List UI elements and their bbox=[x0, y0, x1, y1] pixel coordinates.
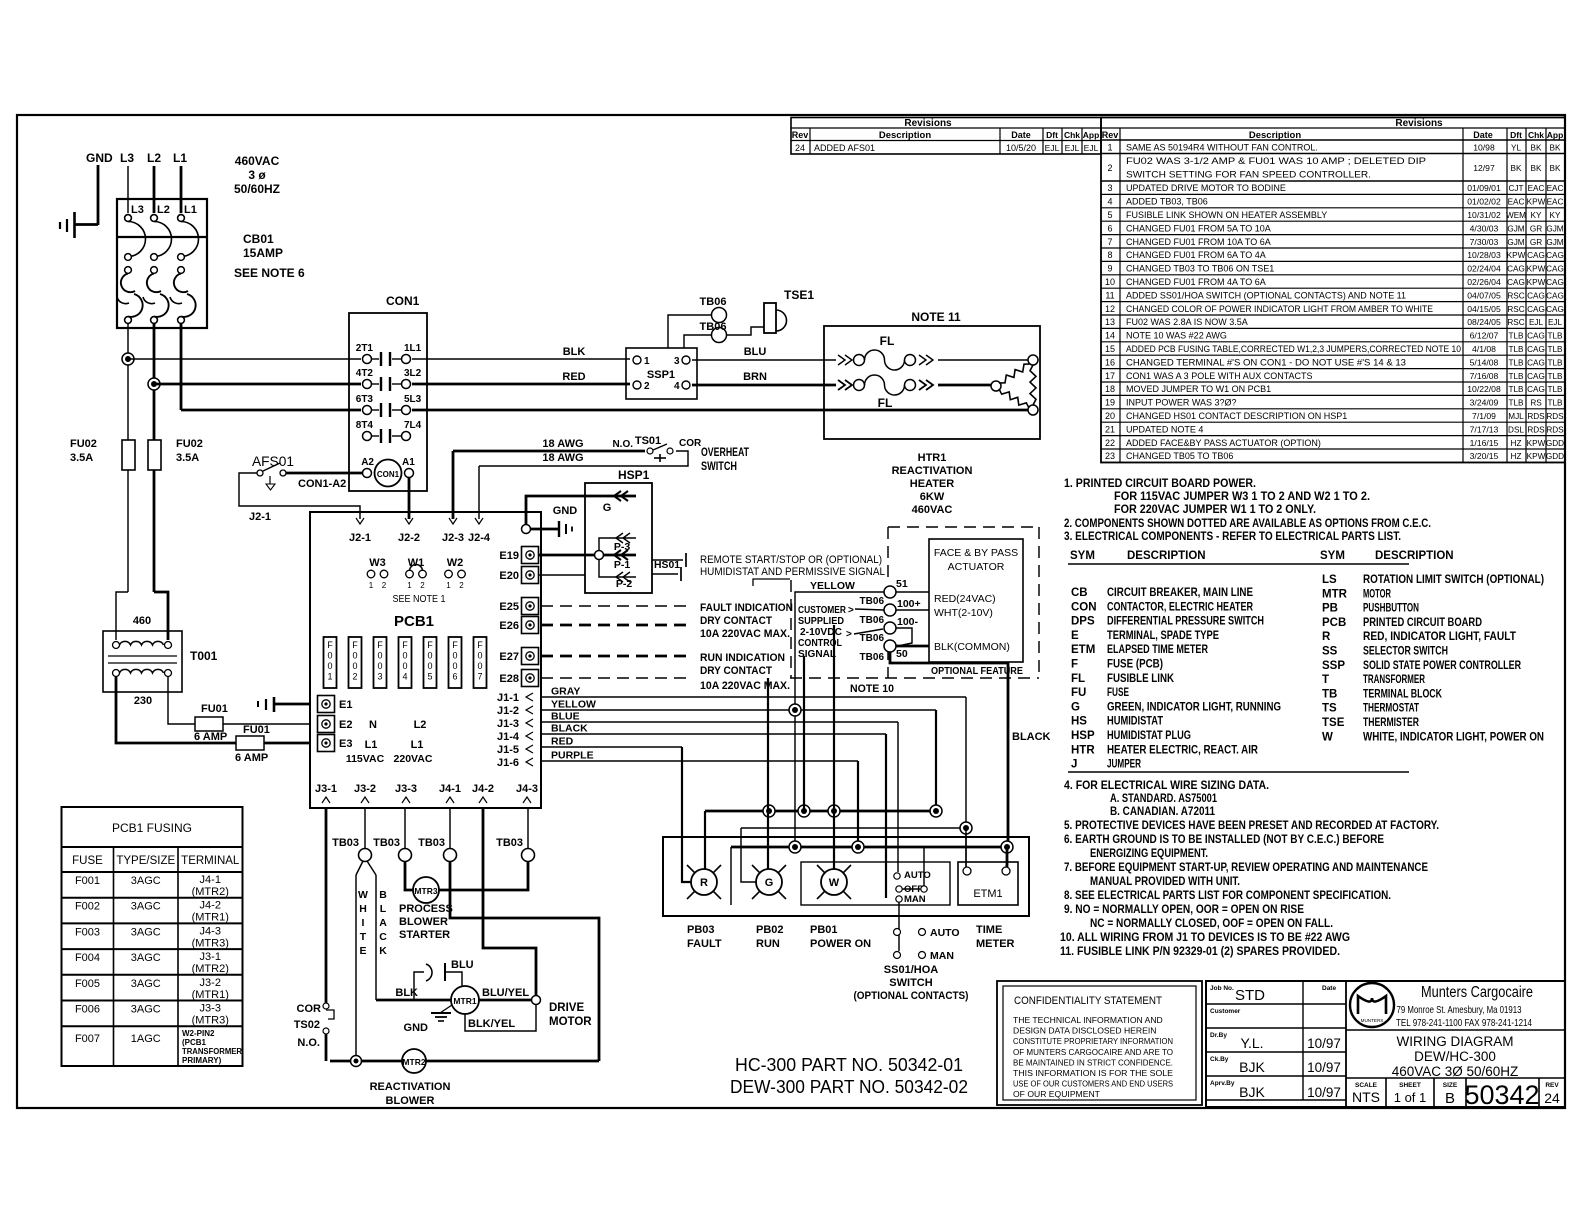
svg-text:K: K bbox=[379, 945, 387, 957]
svg-text:CHANGED TB03 TO TB06 ON TSE1: CHANGED TB03 TO TB06 ON TSE1 bbox=[1126, 264, 1274, 274]
svg-text:RS: RS bbox=[1530, 399, 1542, 408]
svg-text:J3-1: J3-1 bbox=[315, 783, 337, 795]
svg-text:KPW: KPW bbox=[1527, 439, 1546, 448]
svg-text:REV: REV bbox=[1545, 1082, 1559, 1089]
svg-text:6: 6 bbox=[452, 672, 457, 682]
svg-text:DSL: DSL bbox=[1508, 425, 1524, 434]
svg-text:1 of 1: 1 of 1 bbox=[1394, 1090, 1427, 1105]
svg-text:BLU: BLU bbox=[744, 346, 767, 358]
svg-text:Dft: Dft bbox=[1046, 130, 1058, 140]
svg-text:22: 22 bbox=[1105, 438, 1115, 448]
svg-text:220VAC: 220VAC bbox=[394, 753, 433, 765]
svg-text:10A 220VAC MAX.: 10A 220VAC MAX. bbox=[700, 628, 790, 640]
svg-text:STARTER: STARTER bbox=[399, 929, 450, 941]
svg-text:4T2: 4T2 bbox=[356, 368, 374, 379]
svg-text:CAG: CAG bbox=[1507, 278, 1525, 287]
svg-text:BJK: BJK bbox=[1239, 1059, 1265, 1075]
svg-text:02/26/04: 02/26/04 bbox=[1467, 277, 1501, 287]
svg-text:EJL: EJL bbox=[1045, 143, 1060, 153]
svg-text:TLB: TLB bbox=[1508, 332, 1524, 341]
svg-text:GREEN, INDICATOR LIGHT, RUNNIN: GREEN, INDICATOR LIGHT, RUNNING bbox=[1107, 701, 1281, 713]
svg-text:(MTR2): (MTR2) bbox=[192, 886, 229, 898]
svg-text:3L2: 3L2 bbox=[404, 368, 422, 379]
svg-text:0: 0 bbox=[402, 661, 407, 671]
svg-text:COR: COR bbox=[679, 438, 702, 449]
svg-text:3AGC: 3AGC bbox=[131, 926, 161, 938]
svg-text:KPW: KPW bbox=[1507, 251, 1526, 260]
svg-text:J1-5: J1-5 bbox=[497, 744, 519, 756]
svg-text:FOR 115VAC JUMPER W3 1 TO 2 AN: FOR 115VAC JUMPER W3 1 TO 2 AND W2 1 TO … bbox=[1114, 489, 1370, 503]
svg-text:TLB: TLB bbox=[1508, 372, 1524, 381]
svg-text:CJT: CJT bbox=[1508, 184, 1523, 193]
svg-text:10A 220VAC MAX.: 10A 220VAC MAX. bbox=[700, 680, 790, 692]
svg-text:50/60HZ: 50/60HZ bbox=[234, 182, 280, 196]
svg-text:BLK: BLK bbox=[563, 346, 586, 358]
svg-text:R: R bbox=[1322, 631, 1331, 643]
svg-text:F006: F006 bbox=[75, 1004, 100, 1016]
svg-text:FOR 220VAC JUMPER W1 1 TO 2 ON: FOR 220VAC JUMPER W1 1 TO 2 ONLY. bbox=[1114, 502, 1316, 516]
svg-text:0: 0 bbox=[352, 661, 357, 671]
svg-text:BLK/YEL: BLK/YEL bbox=[468, 1018, 515, 1030]
svg-text:CHANGED COLOR OF POWER INDICAT: CHANGED COLOR OF POWER INDICATOR LIGHT F… bbox=[1126, 304, 1433, 314]
svg-text:HZ: HZ bbox=[1511, 439, 1522, 448]
svg-text:W2: W2 bbox=[447, 557, 464, 569]
svg-text:A2: A2 bbox=[361, 457, 374, 468]
svg-text:UPDATED NOTE 4: UPDATED NOTE 4 bbox=[1126, 424, 1203, 434]
svg-text:TLB: TLB bbox=[1547, 358, 1563, 367]
svg-text:10/98: 10/98 bbox=[1473, 143, 1495, 153]
svg-text:RDS: RDS bbox=[1527, 412, 1545, 421]
svg-text:3: 3 bbox=[1107, 183, 1112, 193]
svg-text:Customer: Customer bbox=[1210, 1008, 1241, 1015]
svg-text:W: W bbox=[1322, 731, 1333, 743]
svg-text:L1: L1 bbox=[173, 151, 187, 165]
svg-text:7/1/09: 7/1/09 bbox=[1472, 411, 1496, 421]
svg-text:RSC: RSC bbox=[1507, 291, 1524, 300]
svg-text:0: 0 bbox=[477, 661, 482, 671]
svg-text:(MTR3): (MTR3) bbox=[192, 1015, 229, 1027]
svg-text:CAG: CAG bbox=[1546, 305, 1564, 314]
svg-text:TB06: TB06 bbox=[860, 652, 885, 663]
svg-text:E: E bbox=[1071, 630, 1079, 642]
svg-text:3.5A: 3.5A bbox=[70, 452, 93, 464]
svg-text:2. COMPONENTS SHOWN DOTTED ARE: 2. COMPONENTS SHOWN DOTTED ARE AVAILABLE… bbox=[1064, 516, 1431, 530]
svg-text:0: 0 bbox=[327, 651, 332, 661]
svg-text:SWITCH SETTING FOR FAN SPEED C: SWITCH SETTING FOR FAN SPEED CONTROLLER. bbox=[1126, 170, 1371, 180]
svg-text:6T3: 6T3 bbox=[356, 394, 374, 405]
svg-text:STD: STD bbox=[1235, 987, 1265, 1004]
svg-text:P-1: P-1 bbox=[614, 559, 631, 571]
svg-text:FUSIBLE LINK SHOWN ON HEATER A: FUSIBLE LINK SHOWN ON HEATER ASSEMBLY bbox=[1126, 210, 1327, 220]
svg-text:CAG: CAG bbox=[1546, 251, 1564, 260]
svg-text:WEM: WEM bbox=[1506, 211, 1526, 220]
svg-text:THERMOSTAT: THERMOSTAT bbox=[1363, 703, 1419, 715]
svg-text:J3-3: J3-3 bbox=[395, 783, 417, 795]
svg-text:GND: GND bbox=[86, 151, 113, 165]
svg-text:CAG: CAG bbox=[1507, 265, 1525, 274]
svg-text:A. STANDARD. AS75001: A. STANDARD. AS75001 bbox=[1110, 791, 1217, 805]
svg-text:GR: GR bbox=[1530, 238, 1542, 247]
svg-text:SHEET: SHEET bbox=[1399, 1082, 1421, 1089]
svg-text:SWITCH: SWITCH bbox=[889, 977, 932, 989]
svg-text:KY: KY bbox=[1550, 211, 1561, 220]
svg-text:MOTOR: MOTOR bbox=[549, 1016, 592, 1028]
svg-text:HSP1: HSP1 bbox=[618, 468, 650, 482]
svg-text:FUSE: FUSE bbox=[72, 855, 103, 867]
svg-text:>: > bbox=[848, 605, 854, 616]
svg-text:A: A bbox=[379, 917, 387, 929]
svg-text:J4-1: J4-1 bbox=[200, 874, 221, 886]
svg-text:TLB: TLB bbox=[1547, 399, 1563, 408]
svg-text:SYM: SYM bbox=[1320, 550, 1345, 562]
svg-text:F004: F004 bbox=[75, 952, 100, 964]
svg-text:7/16/08: 7/16/08 bbox=[1470, 371, 1499, 381]
svg-text:Revisions: Revisions bbox=[904, 118, 952, 129]
svg-text:DEW-300 PART NO. 50342-02: DEW-300 PART NO. 50342-02 bbox=[730, 1077, 968, 1097]
svg-text:0: 0 bbox=[377, 661, 382, 671]
svg-text:ACTUATOR: ACTUATOR bbox=[948, 561, 1005, 573]
svg-text:79 Monroe St. Amesbury, Ma 019: 79 Monroe St. Amesbury, Ma 01913 bbox=[1397, 1004, 1522, 1016]
svg-text:18: 18 bbox=[1105, 384, 1115, 394]
svg-text:2: 2 bbox=[644, 381, 650, 392]
svg-text:CHANGED FU01 FROM 4A TO 6A: CHANGED FU01 FROM 4A TO 6A bbox=[1126, 277, 1266, 287]
svg-text:DEW/HC-300: DEW/HC-300 bbox=[1414, 1049, 1496, 1064]
svg-text:NOTE 10 WAS #22 AWG: NOTE 10 WAS #22 AWG bbox=[1126, 331, 1227, 341]
svg-text:CAG: CAG bbox=[1546, 291, 1564, 300]
svg-text:TLB: TLB bbox=[1508, 358, 1524, 367]
svg-text:TRANSFORMER: TRANSFORMER bbox=[182, 1047, 242, 1056]
svg-text:10: 10 bbox=[1105, 277, 1115, 287]
svg-text:KPW: KPW bbox=[1527, 452, 1546, 461]
svg-text:3AGC: 3AGC bbox=[131, 952, 161, 964]
svg-text:TB: TB bbox=[1322, 688, 1337, 700]
svg-text:5L3: 5L3 bbox=[404, 394, 422, 405]
svg-text:B. CANADIAN. A72011: B. CANADIAN. A72011 bbox=[1110, 804, 1215, 818]
svg-text:NC = NORMALLY CLOSED, OOF = OP: NC = NORMALLY CLOSED, OOF = OPEN ON FALL… bbox=[1090, 916, 1333, 930]
svg-text:CON1 WAS A 3 POLE WITH AUX CON: CON1 WAS A 3 POLE WITH AUX CONTACTS bbox=[1126, 371, 1313, 381]
svg-text:T: T bbox=[360, 931, 367, 943]
svg-text:CHANGED TERMINAL #'S ON CON1 -: CHANGED TERMINAL #'S ON CON1 - DO NOT US… bbox=[1126, 357, 1406, 367]
svg-text:MOTOR: MOTOR bbox=[1363, 588, 1391, 600]
svg-text:J2-3: J2-3 bbox=[442, 532, 464, 544]
svg-text:TLB: TLB bbox=[1547, 332, 1563, 341]
svg-text:METER: METER bbox=[976, 938, 1015, 950]
svg-text:POWER ON: POWER ON bbox=[810, 938, 871, 950]
svg-text:COR: COR bbox=[297, 1003, 322, 1015]
svg-text:ELAPSED TIME METER: ELAPSED TIME METER bbox=[1107, 644, 1209, 656]
svg-text:MAN: MAN bbox=[930, 950, 954, 962]
svg-text:PCB1 FUSING: PCB1 FUSING bbox=[112, 821, 192, 835]
svg-text:EJL: EJL bbox=[1084, 143, 1099, 153]
svg-text:RED: RED bbox=[562, 371, 585, 383]
svg-text:PUSHBUTTON: PUSHBUTTON bbox=[1363, 603, 1419, 615]
svg-text:4/30/03: 4/30/03 bbox=[1470, 223, 1499, 233]
svg-text:4: 4 bbox=[674, 381, 680, 392]
svg-text:1. PRINTED CIRCUIT BOARD POWER: 1. PRINTED CIRCUIT BOARD POWER. bbox=[1064, 476, 1256, 490]
svg-text:460VAC: 460VAC bbox=[235, 154, 280, 168]
svg-text:F: F bbox=[402, 640, 408, 650]
svg-text:CONTROL: CONTROL bbox=[798, 638, 842, 649]
svg-text:W: W bbox=[358, 889, 368, 901]
svg-text:TSE: TSE bbox=[1322, 717, 1345, 729]
svg-text:SAME AS 50194R4 WITHOUT FAN CO: SAME AS 50194R4 WITHOUT FAN CONTROL. bbox=[1126, 143, 1318, 153]
svg-text:3AGC: 3AGC bbox=[131, 978, 161, 990]
svg-text:17: 17 bbox=[1105, 371, 1115, 381]
svg-text:L3: L3 bbox=[120, 151, 134, 165]
svg-text:RED: RED bbox=[551, 736, 574, 748]
svg-text:L1: L1 bbox=[365, 739, 378, 751]
svg-text:ADDED AFS01: ADDED AFS01 bbox=[814, 143, 875, 153]
svg-text:1L1: 1L1 bbox=[404, 343, 422, 354]
svg-text:Rev: Rev bbox=[1102, 130, 1119, 140]
svg-text:F005: F005 bbox=[75, 978, 100, 990]
svg-text:SSP: SSP bbox=[1322, 660, 1345, 672]
svg-text:PRINTED CIRCUIT BOARD: PRINTED CIRCUIT BOARD bbox=[1363, 617, 1482, 629]
svg-text:CAG: CAG bbox=[1527, 332, 1545, 341]
svg-text:3AGC: 3AGC bbox=[131, 1004, 161, 1016]
svg-text:L2: L2 bbox=[157, 204, 170, 216]
svg-text:CON: CON bbox=[1071, 601, 1097, 613]
svg-text:4/1/08: 4/1/08 bbox=[1472, 344, 1496, 354]
svg-text:0: 0 bbox=[327, 661, 332, 671]
svg-text:Revisions: Revisions bbox=[1395, 118, 1443, 129]
svg-text:RSC: RSC bbox=[1507, 318, 1524, 327]
svg-text:E2: E2 bbox=[339, 719, 352, 731]
svg-text:23: 23 bbox=[1105, 451, 1115, 461]
svg-text:0: 0 bbox=[452, 651, 457, 661]
svg-text:Chk: Chk bbox=[1064, 130, 1080, 140]
svg-text:15: 15 bbox=[1105, 344, 1115, 354]
svg-text:T001: T001 bbox=[190, 649, 218, 663]
svg-text:6/12/07: 6/12/07 bbox=[1470, 331, 1499, 341]
svg-text:SSP1: SSP1 bbox=[647, 369, 675, 381]
svg-text:Date: Date bbox=[1473, 130, 1493, 140]
svg-text:10/97: 10/97 bbox=[1307, 1036, 1341, 1051]
svg-text:OVERHEAT: OVERHEAT bbox=[701, 447, 749, 459]
svg-text:BLU/YEL: BLU/YEL bbox=[482, 987, 529, 999]
svg-text:DIFFERENTIAL PRESSURE SWITCH: DIFFERENTIAL PRESSURE SWITCH bbox=[1107, 616, 1264, 628]
svg-text:FACE & BY PASS: FACE & BY PASS bbox=[934, 547, 1018, 559]
svg-text:10/31/02: 10/31/02 bbox=[1467, 210, 1501, 220]
svg-text:DESCRIPTION: DESCRIPTION bbox=[1375, 550, 1454, 562]
svg-text:UPDATED DRIVE MOTOR TO BODINE: UPDATED DRIVE MOTOR TO BODINE bbox=[1126, 183, 1286, 193]
svg-text:BRN: BRN bbox=[743, 371, 767, 383]
svg-text:RDS: RDS bbox=[1546, 425, 1564, 434]
svg-text:FU01: FU01 bbox=[243, 724, 270, 736]
svg-text:E20: E20 bbox=[499, 570, 519, 582]
svg-text:DESIGN DATA DISCLOSED HEREIN: DESIGN DATA DISCLOSED HEREIN bbox=[1013, 1026, 1156, 1036]
svg-text:F007: F007 bbox=[75, 1033, 100, 1045]
svg-text:G: G bbox=[603, 502, 612, 514]
svg-text:18 AWG: 18 AWG bbox=[542, 452, 583, 464]
svg-text:CHANGED HS01 CONTACT DESCRIPTI: CHANGED HS01 CONTACT DESCRIPTION ON HSP1 bbox=[1126, 411, 1347, 421]
svg-text:THE TECHNICAL INFORMATION AND: THE TECHNICAL INFORMATION AND bbox=[1013, 1015, 1163, 1025]
svg-text:6 AMP: 6 AMP bbox=[235, 752, 268, 764]
svg-text:02/24/04: 02/24/04 bbox=[1467, 264, 1501, 274]
svg-text:FU02: FU02 bbox=[176, 438, 203, 450]
svg-text:GJM: GJM bbox=[1507, 224, 1524, 233]
svg-text:App: App bbox=[1547, 130, 1564, 140]
svg-text:PROCESS: PROCESS bbox=[399, 903, 453, 915]
svg-text:F: F bbox=[327, 640, 333, 650]
svg-text:MTR3: MTR3 bbox=[414, 886, 437, 896]
svg-text:FU02 WAS 2.8A IS NOW 3.5A: FU02 WAS 2.8A IS NOW 3.5A bbox=[1126, 317, 1248, 327]
svg-text:CIRCUIT BREAKER, MAIN LINE: CIRCUIT BREAKER, MAIN LINE bbox=[1107, 587, 1253, 599]
svg-text:BK: BK bbox=[1550, 164, 1561, 173]
svg-text:24: 24 bbox=[795, 143, 805, 153]
svg-text:7: 7 bbox=[1107, 237, 1112, 247]
svg-text:SOLID STATE POWER CONTROLLER: SOLID STATE POWER CONTROLLER bbox=[1363, 660, 1522, 672]
svg-text:J4-2: J4-2 bbox=[472, 783, 494, 795]
svg-text:REMOTE START/STOP OR (OPTIONAL: REMOTE START/STOP OR (OPTIONAL) bbox=[700, 554, 882, 566]
svg-text:8. SEE ELECTRICAL PARTS LIST: 8. SEE ELECTRICAL PARTS LIST FOR COMPONE… bbox=[1064, 888, 1391, 902]
svg-text:RED(24VAC): RED(24VAC) bbox=[934, 593, 996, 605]
svg-text:GJM: GJM bbox=[1546, 238, 1563, 247]
svg-text:08/24/05: 08/24/05 bbox=[1467, 317, 1501, 327]
svg-text:CHANGED FU01 FROM 5A TO 10A: CHANGED FU01 FROM 5A TO 10A bbox=[1126, 223, 1271, 233]
svg-text:CAG: CAG bbox=[1546, 265, 1564, 274]
svg-text:Dft: Dft bbox=[1510, 130, 1522, 140]
svg-text:YL: YL bbox=[1511, 144, 1521, 153]
svg-text:JUMPER: JUMPER bbox=[1107, 759, 1141, 771]
svg-text:MTR1: MTR1 bbox=[453, 996, 476, 1006]
svg-text:CONSTITUTE PROPRIETARY INFORMA: CONSTITUTE PROPRIETARY INFORMATION bbox=[1013, 1036, 1173, 1046]
svg-text:E3: E3 bbox=[339, 738, 352, 750]
svg-text:TB06: TB06 bbox=[860, 596, 885, 607]
svg-text:MAN: MAN bbox=[904, 894, 926, 905]
svg-text:FUSIBLE LINK: FUSIBLE LINK bbox=[1107, 673, 1175, 685]
svg-text:CHANGED FU01 FROM 6A TO 4A: CHANGED FU01 FROM 6A TO 4A bbox=[1126, 250, 1266, 260]
svg-text:GDD: GDD bbox=[1546, 452, 1564, 461]
svg-text:7: 7 bbox=[477, 672, 482, 682]
svg-text:FUSE: FUSE bbox=[1107, 687, 1129, 699]
svg-text:REACTIVATION: REACTIVATION bbox=[370, 1081, 451, 1093]
svg-text:460: 460 bbox=[133, 615, 151, 627]
svg-text:7/17/13: 7/17/13 bbox=[1470, 424, 1499, 434]
svg-text:10/28/03: 10/28/03 bbox=[1467, 250, 1501, 260]
svg-text:Dr.By: Dr.By bbox=[1210, 1032, 1227, 1039]
svg-text:HUMIDISTAT: HUMIDISTAT bbox=[1107, 716, 1163, 728]
svg-text:J2-2: J2-2 bbox=[398, 532, 420, 544]
svg-text:5. PROTECTIVE DEVICES HAVE BE: 5. PROTECTIVE DEVICES HAVE BEEN PRESET A… bbox=[1064, 818, 1439, 832]
svg-text:E26: E26 bbox=[499, 620, 519, 632]
svg-text:TB06: TB06 bbox=[860, 633, 885, 644]
svg-text:Munters Cargocaire: Munters Cargocaire bbox=[1421, 984, 1533, 1001]
svg-text:Rev: Rev bbox=[792, 130, 809, 140]
svg-text:TLB: TLB bbox=[1547, 372, 1563, 381]
svg-text:TB03: TB03 bbox=[496, 837, 523, 849]
svg-text:HTR1: HTR1 bbox=[918, 452, 947, 464]
svg-text:1: 1 bbox=[644, 356, 650, 367]
svg-text:RUN: RUN bbox=[756, 938, 780, 950]
svg-text:PURPLE: PURPLE bbox=[551, 750, 594, 762]
svg-text:0: 0 bbox=[477, 651, 482, 661]
svg-text:HSP: HSP bbox=[1071, 730, 1095, 742]
svg-text:5: 5 bbox=[427, 672, 432, 682]
svg-text:J3-2: J3-2 bbox=[354, 783, 376, 795]
svg-text:TLB: TLB bbox=[1508, 385, 1524, 394]
svg-text:CAG: CAG bbox=[1527, 251, 1545, 260]
svg-text:16: 16 bbox=[1105, 357, 1115, 367]
svg-text:BK: BK bbox=[1531, 144, 1542, 153]
svg-text:0: 0 bbox=[377, 651, 382, 661]
svg-text:11: 11 bbox=[1105, 290, 1114, 300]
svg-text:J3-3: J3-3 bbox=[200, 1003, 221, 1015]
svg-text:HEATER ELECTRIC, REACT. AIR: HEATER ELECTRIC, REACT. AIR bbox=[1107, 744, 1259, 756]
svg-text:LS: LS bbox=[1322, 574, 1337, 586]
svg-text:GND: GND bbox=[553, 505, 578, 517]
svg-text:2T1: 2T1 bbox=[356, 343, 374, 354]
svg-text:04/07/05: 04/07/05 bbox=[1467, 290, 1501, 300]
svg-text:BK: BK bbox=[1511, 164, 1522, 173]
svg-text:SS: SS bbox=[1322, 646, 1338, 658]
svg-text:Y.L.: Y.L. bbox=[1240, 1035, 1263, 1051]
svg-text:DESCRIPTION: DESCRIPTION bbox=[1127, 550, 1206, 562]
svg-text:OF OUR EQUIPMENT: OF OUR EQUIPMENT bbox=[1013, 1089, 1101, 1099]
svg-text:L1: L1 bbox=[411, 739, 424, 751]
svg-text:App: App bbox=[1083, 130, 1100, 140]
svg-text:J3-1: J3-1 bbox=[200, 951, 221, 963]
svg-text:E28: E28 bbox=[499, 673, 519, 685]
svg-text:F003: F003 bbox=[75, 926, 100, 938]
svg-text:DPS: DPS bbox=[1071, 616, 1095, 628]
svg-text:20: 20 bbox=[1105, 411, 1115, 421]
svg-text:MANUAL PROVIDED WITH UNIT.: MANUAL PROVIDED WITH UNIT. bbox=[1090, 874, 1240, 888]
svg-text:GRAY: GRAY bbox=[551, 686, 580, 698]
svg-text:FU01: FU01 bbox=[201, 703, 228, 715]
svg-text:J: J bbox=[1071, 759, 1077, 771]
svg-text:1: 1 bbox=[407, 581, 412, 590]
svg-text:PB: PB bbox=[1322, 603, 1338, 615]
svg-text:EJL: EJL bbox=[1065, 143, 1080, 153]
svg-text:B: B bbox=[379, 889, 387, 901]
svg-text:GDD: GDD bbox=[1546, 439, 1564, 448]
svg-text:FAULT: FAULT bbox=[687, 938, 722, 950]
svg-text:TB06: TB06 bbox=[700, 321, 727, 333]
svg-text:2: 2 bbox=[1107, 163, 1112, 173]
svg-text:SUPPLIED: SUPPLIED bbox=[798, 616, 844, 627]
svg-text:BLACK: BLACK bbox=[1012, 731, 1051, 743]
svg-text:T: T bbox=[1322, 674, 1329, 686]
svg-text:F: F bbox=[377, 640, 383, 650]
svg-text:EAC: EAC bbox=[1547, 198, 1564, 207]
svg-text:0: 0 bbox=[352, 651, 357, 661]
svg-text:J1-2: J1-2 bbox=[497, 705, 519, 717]
svg-text:BLACK: BLACK bbox=[551, 723, 588, 735]
svg-text:YELLOW: YELLOW bbox=[810, 580, 855, 592]
svg-text:RED, INDICATOR LIGHT, FAULT: RED, INDICATOR LIGHT, FAULT bbox=[1363, 631, 1516, 643]
svg-text:W2-PIN2: W2-PIN2 bbox=[182, 1029, 215, 1038]
svg-text:G: G bbox=[765, 877, 774, 889]
svg-text:11. FUSIBLE LINK P/N 92329-01: 11. FUSIBLE LINK P/N 92329-01 (2) SPARES… bbox=[1060, 944, 1340, 958]
svg-text:THIS INFORMATION IS FOR THE SO: THIS INFORMATION IS FOR THE SOLE bbox=[1013, 1068, 1173, 1078]
svg-text:9. NO = NORMALLY OPEN, OOR =: 9. NO = NORMALLY OPEN, OOR = OPEN ON RIS… bbox=[1064, 902, 1304, 916]
svg-text:YELLOW: YELLOW bbox=[551, 699, 596, 711]
svg-text:BLU: BLU bbox=[451, 959, 474, 971]
svg-text:CON1: CON1 bbox=[377, 470, 400, 479]
svg-text:ADDED FACE&BY PASS ACTUATOR (O: ADDED FACE&BY PASS ACTUATOR (OPTION) bbox=[1126, 438, 1321, 448]
svg-text:TB06: TB06 bbox=[700, 296, 727, 308]
svg-text:TERMINAL: TERMINAL bbox=[181, 855, 240, 867]
svg-text:10. ALL WIRING FROM J1 TO DEVI: 10. ALL WIRING FROM J1 TO DEVICES IS TO … bbox=[1060, 930, 1350, 944]
svg-text:12: 12 bbox=[1105, 304, 1115, 314]
svg-text:ETM1: ETM1 bbox=[973, 888, 1002, 900]
svg-text:A1: A1 bbox=[402, 457, 415, 468]
svg-text:THERMISTER: THERMISTER bbox=[1363, 717, 1420, 729]
svg-text:FL: FL bbox=[1071, 673, 1085, 685]
svg-text:MTR2: MTR2 bbox=[402, 1057, 425, 1067]
svg-text:01/02/02: 01/02/02 bbox=[1467, 197, 1501, 207]
